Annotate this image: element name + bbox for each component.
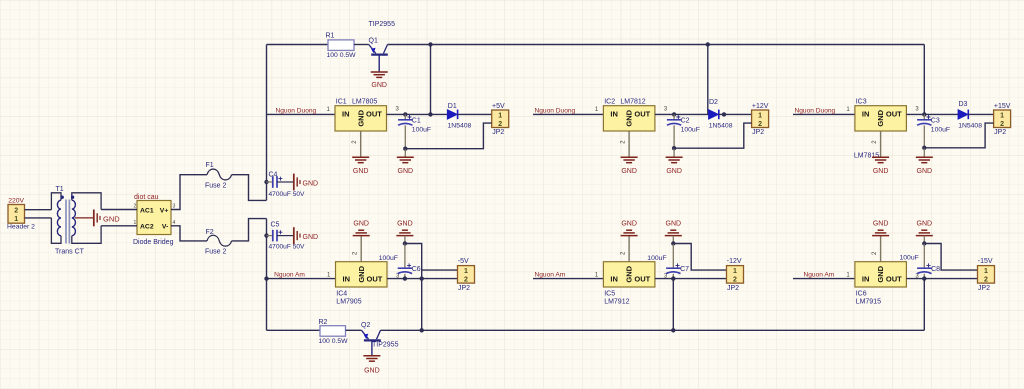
wire JP2 pin2 return [405,123,491,149]
connector JP2 -15V [978,266,995,284]
node C7 at output wire [671,276,675,280]
svg-text:IN: IN [610,274,618,283]
svg-text:C8: C8 [931,266,940,273]
wire D1 to JP2 [458,113,492,115]
svg-text:GND: GND [873,168,889,175]
wire input to IC2 [533,113,603,115]
transistor Q1 TIP2955 [369,45,376,54]
svg-text:GND: GND [917,168,933,175]
svg-text:OUT: OUT [886,110,902,119]
svg-text:1: 1 [758,112,762,119]
regulator IC5 LM7912 [603,262,655,287]
wire header pin2 to transformer [25,209,52,211]
svg-text:+15V: +15V [994,103,1011,110]
ground GND below C2 [673,148,675,157]
svg-text:GND: GND [103,214,120,223]
svg-text:2: 2 [758,121,762,128]
svg-text:D3: D3 [959,101,968,108]
ground GND below IC2 [621,156,638,158]
svg-text:GND: GND [621,221,637,228]
svg-text:GND: GND [303,180,319,187]
ground GND above IC6 [872,235,889,237]
svg-text:JP2: JP2 [458,285,470,292]
svg-text:+12V: +12V [752,103,769,110]
regulator IC2 LM7812 [603,106,655,131]
svg-text:V+: V+ [160,207,169,214]
positive raw rail vertical [266,45,268,201]
wire Q1 base stem [378,55,380,72]
polarity dot left winding [61,196,64,199]
wire transformer to AC2 [101,225,137,227]
svg-text:IN: IN [862,274,870,283]
pin 2 stem of IC4 [360,236,362,262]
power ground bar GND at C5 [293,227,295,244]
svg-text:1: 1 [1000,112,1004,119]
svg-text:100uF: 100uF [900,255,919,262]
svg-text:LM7805: LM7805 [352,99,377,106]
svg-text:IC4: IC4 [336,290,347,297]
ground GND above C8 [916,235,933,237]
node output IC1 [403,112,407,116]
svg-text:4700uF 50V: 4700uF 50V [269,191,306,198]
svg-text:100uF: 100uF [379,255,398,262]
svg-text:IN: IN [862,110,870,119]
svg-text:GND: GND [873,221,889,228]
capacitor C2 100uF [673,114,675,119]
svg-text:100uF: 100uF [412,127,431,134]
svg-text:Nguon Duong: Nguon Duong [795,107,836,114]
wire drop to IC1 output node [430,45,432,115]
svg-text:IN: IN [342,110,350,119]
svg-text:2: 2 [14,208,18,215]
fuse F1 Fuse 2 [207,169,232,180]
svg-text:100 0.5W: 100 0.5W [319,338,349,345]
svg-text:JP2: JP2 [752,129,764,136]
wire IC3 output [906,113,958,115]
svg-text:GND: GND [398,168,414,175]
node after D2 [722,112,726,116]
pin 2 stem of IC1 [360,131,362,157]
svg-text:IC5: IC5 [604,290,615,297]
node below C1 [403,147,407,151]
svg-text:D2: D2 [709,99,718,106]
svg-text:LM7915: LM7915 [856,299,881,306]
ground GND below Q2 [363,355,380,357]
diode bridge D4 Diode Brideg [137,201,171,235]
wire GND jog to JP2 pin1 [673,244,726,271]
svg-text:1N5408: 1N5408 [709,123,733,130]
node GND junction above C8 [922,241,926,245]
center tap wire to ground [75,217,93,219]
capacitor C8 100uF [923,244,925,269]
svg-text:4700uF 50V: 4700uF 50V [269,244,306,251]
node output IC2 [672,112,676,116]
svg-text:AC2: AC2 [140,224,154,231]
transformer core [65,200,67,244]
pin 2 stem of IC6 [880,236,882,262]
ground GND below IC1 [352,156,369,158]
wire JP2 pin2 return [924,123,993,148]
svg-text:220V: 220V [8,198,24,205]
svg-text:OUT: OUT [366,110,382,119]
wire input to IC6 [793,278,855,280]
svg-text:GND: GND [357,265,366,282]
svg-text:diot cau: diot cau [134,194,159,201]
node at bottom rail [671,328,675,332]
svg-text:LM7912: LM7912 [604,299,629,306]
resistor R1 100 0.5W [328,40,354,51]
svg-text:TIP2955: TIP2955 [372,341,399,348]
connector JP2 -5V [458,266,475,284]
svg-text:IC1: IC1 [336,99,347,106]
node drop from top rail [428,112,432,116]
ground GND above IC4 [353,235,370,237]
connector JP2 +12V [752,110,769,128]
wire IC1 output [387,113,448,115]
svg-text:IN: IN [343,274,351,283]
node C6 at output wire [403,276,407,280]
wire bottom rail left [267,329,321,331]
svg-text:JP2: JP2 [727,285,739,292]
node top rail to row2 [706,42,710,46]
svg-text:Nguon Am: Nguon Am [804,272,835,279]
svg-text:LM7905: LM7905 [336,299,361,306]
wire IC2 output [655,113,709,115]
wire Q2 base stem [371,340,373,355]
pin 2 stem of IC5 [628,236,630,262]
svg-text:-12V: -12V [727,258,742,265]
wire IC5 output [655,278,727,280]
svg-text:C1: C1 [412,118,421,125]
svg-text:2: 2 [733,277,737,284]
wire D2 to JP2 [719,113,752,115]
capacitor C6 100uF [404,244,406,269]
svg-text:C3: C3 [931,118,940,125]
svg-text:GND: GND [371,82,387,89]
node negative rail row4 [264,276,268,280]
svg-text:R2: R2 [319,319,328,326]
svg-text:1: 1 [984,268,988,275]
node GND junction above C7 [671,241,675,245]
capacitor C7 100uF [672,244,674,269]
regulator IC6 LM7915 [855,262,907,287]
connector JP2 -12V [727,266,744,284]
svg-text:2: 2 [498,121,502,128]
diode D2 1N5408 [709,110,719,120]
svg-text:C6: C6 [412,266,421,273]
wire IC6 output [906,278,977,280]
negative raw rail vertical [266,219,268,331]
node top rail to row1 [428,42,432,46]
power ground bar GND at center tap [93,210,95,227]
wire F1 to positive rail [232,175,267,201]
svg-text:2: 2 [464,277,468,284]
svg-text:IC3: IC3 [856,99,867,106]
svg-text:3: 3 [173,204,176,210]
svg-text:F1: F1 [206,162,214,169]
svg-text:OUT: OUT [367,274,383,283]
svg-text:IC2: IC2 [604,99,615,106]
svg-text:OUT: OUT [634,274,650,283]
svg-text:AC1: AC1 [140,207,154,214]
svg-text:C7: C7 [680,266,689,273]
svg-text:T1: T1 [56,186,64,193]
svg-text:100uF: 100uF [647,255,666,262]
wire R1 to Q1 [354,44,369,46]
wire D3 to JP2 [968,113,993,115]
svg-text:Nguon Duong: Nguon Duong [276,107,317,114]
wire V- to fuse F2 [171,226,207,241]
ground GND above C6 [396,235,413,237]
regulator IC4 LM7905 [336,262,388,287]
svg-text:Nguon Am: Nguon Am [535,272,566,279]
svg-text:JP2: JP2 [978,285,990,292]
svg-text:OUT: OUT [634,110,650,119]
svg-text:R1: R1 [326,32,335,39]
svg-text:OUT: OUT [886,274,902,283]
wire input to IC5 [533,278,603,280]
svg-text:1: 1 [498,112,502,119]
svg-text:1: 1 [14,216,18,223]
regulator IC3 LM7815 [855,106,907,131]
svg-text:-5V: -5V [458,258,469,265]
regulator IC1 LM7805 [335,106,387,131]
capacitor C5 4700uF 50V [264,233,268,237]
capacitor C4 4700uF 50V [264,180,268,184]
connector JP2 +5V [492,110,509,128]
svg-text:GND: GND [625,265,634,282]
wire bottom rail right [381,329,925,331]
svg-text:Trans CT: Trans CT [55,248,85,255]
wire top rail left [267,44,329,46]
svg-text:JP2: JP2 [492,129,504,136]
svg-text:Nguon Duong: Nguon Duong [535,107,576,114]
svg-text:Q1: Q1 [369,37,378,44]
wire IC4 output [387,278,458,280]
svg-text:GND: GND [876,109,885,126]
svg-text:Diode Brideg: Diode Brideg [133,239,174,246]
svg-text:C4: C4 [269,172,278,179]
wire input to IC1 [267,113,336,115]
power ground bar GND at C4 [293,174,295,191]
svg-text:F2: F2 [206,229,214,236]
svg-text:1N5408: 1N5408 [448,123,472,130]
svg-text:GND: GND [876,265,885,282]
wire drop to D2 anode [707,45,709,115]
connector JP2 +15V [994,110,1011,128]
svg-text:C5: C5 [271,222,280,229]
capacitor C3 100uF [923,114,925,119]
svg-text:IC6: IC6 [856,290,867,297]
svg-text:GND: GND [364,368,380,375]
svg-text:1: 1 [464,268,468,275]
node output IC3 [922,112,926,116]
svg-text:GND: GND [397,221,413,228]
svg-text:GND: GND [625,109,634,126]
ground GND below C1 [404,149,406,158]
svg-text:100uF: 100uF [931,127,950,134]
svg-text:GND: GND [303,234,319,241]
svg-text:2: 2 [984,277,988,284]
wire GND jog to JP2 pin1 [924,244,977,271]
svg-text:C2: C2 [681,118,690,125]
svg-text:IN: IN [610,110,618,119]
svg-text:GND: GND [666,168,682,175]
svg-text:GND: GND [353,168,369,175]
wire V+ to fuse F1 [171,175,207,210]
pin 2 stem of IC3 [880,131,882,157]
transistor Q2 TIP2955 [362,330,369,339]
ground GND below Q1 [371,71,388,73]
ground GND below IC3 [872,156,889,158]
wire top rail right [388,44,925,46]
svg-text:GND: GND [353,221,369,228]
svg-text:LM7815: LM7815 [854,152,879,159]
node jog at output wire [420,276,424,280]
svg-text:Fuse 2: Fuse 2 [205,249,227,256]
transformer right coil [72,200,76,236]
wire transformer to AC1 [101,209,137,211]
capacitor C1 100uF [404,114,406,119]
node jog at bottom rail [420,328,424,332]
wire drop to IC3 output node [923,45,925,115]
svg-text:TIP2955: TIP2955 [369,21,396,28]
svg-text:V-: V- [162,224,168,231]
svg-text:GND: GND [356,109,365,126]
resistor R2 100 0.5W [320,326,346,337]
polarity dot right winding [71,196,74,199]
svg-text:GND: GND [666,221,682,228]
wire input to IC3 [793,113,855,115]
wire JP2 pin2 return [674,123,752,148]
wire bottom rail to IC6 output node [923,279,925,331]
wire GND jog to JP2 pin1 [405,244,422,331]
wire cap node to bottom rail [672,279,674,331]
svg-text:2: 2 [1000,121,1004,128]
svg-text:1: 1 [733,268,737,275]
svg-text:+5V: +5V [492,103,505,110]
wire R2 to Q2 [346,329,362,331]
ground GND above IC5 [621,235,638,237]
diode D3 1N5408 [958,110,968,120]
pin 2 stem of IC2 [628,131,630,157]
svg-text:GND: GND [621,168,637,175]
fuse F2 Fuse 2 [207,235,232,246]
svg-text:GND: GND [917,221,933,228]
node below C3 [922,146,926,150]
diode D1 1N5408 [447,110,457,120]
wire F2 to negative rail [232,219,267,241]
svg-text:-15V: -15V [978,258,993,265]
svg-text:LM7812: LM7812 [620,99,645,106]
svg-text:1N5408: 1N5408 [958,123,982,130]
wire header pin1 to transformer [25,217,52,219]
svg-text:2: 2 [134,204,137,210]
ground GND below C3 [923,148,925,158]
svg-text:D1: D1 [448,103,457,110]
svg-text:JP2: JP2 [994,129,1006,136]
wire input to IC4 [267,278,336,280]
ground GND above C7 [665,235,682,237]
node GND junction above C6 [403,241,407,245]
connector P1 220V Header 2 [8,205,25,224]
svg-text:Header 2: Header 2 [7,223,35,230]
svg-text:Nguon Am: Nguon Am [274,272,305,279]
svg-text:Q2: Q2 [361,322,370,329]
svg-text:100uF: 100uF [681,127,700,134]
node C8 at output wire [922,276,926,280]
node below C2 [672,146,676,150]
svg-text:100 0.5W: 100 0.5W [327,52,357,59]
svg-text:Fuse 2: Fuse 2 [205,183,227,190]
